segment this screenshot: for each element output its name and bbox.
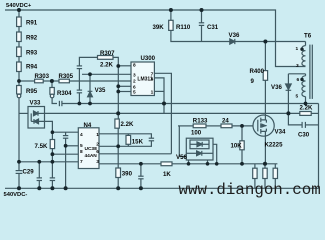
svg-text:4: 4 xyxy=(80,132,83,138)
wire N4 pin5 line xyxy=(66,145,79,147)
capacitor comp at x151 xyxy=(150,134,152,138)
wire snubber vertical xyxy=(318,104,320,189)
wire N4 pin6 output line xyxy=(99,153,171,155)
wire 390 to rail xyxy=(117,178,119,189)
wire N4 pin8 line xyxy=(52,153,78,155)
svg-text:R94: R94 xyxy=(26,64,38,71)
svg-text:V34: V34 xyxy=(275,129,286,136)
svg-text:V33: V33 xyxy=(30,100,41,107)
node T6 phase dot winding2 xyxy=(300,78,303,81)
wire top rail 540VDC+ xyxy=(5,10,306,67)
wire snubber right side xyxy=(311,112,318,114)
resistor R94 xyxy=(17,62,22,72)
wire 7.5K column to VCC line xyxy=(51,154,53,178)
capacitor lower on x79 column xyxy=(77,89,82,91)
node VCC line x52 xyxy=(51,160,55,164)
wire N4 pin3 sense line xyxy=(99,163,277,165)
wire R400 to V34 drain xyxy=(264,80,266,115)
wire R110 column xyxy=(170,10,172,20)
diode V56 upper xyxy=(190,143,197,145)
capacitor at x39 xyxy=(38,162,40,178)
node sense line x216 xyxy=(215,162,219,166)
wire U300 pin8 stub xyxy=(118,65,131,67)
svg-text:390: 390 xyxy=(122,171,133,178)
svg-text:V36: V36 xyxy=(271,84,282,91)
wire T6 pin5 drop xyxy=(305,97,307,104)
svg-text:2.2K: 2.2K xyxy=(121,121,134,128)
node top rail at x19 xyxy=(17,8,21,12)
resistor R400 xyxy=(263,71,267,81)
resistor R93 xyxy=(17,47,22,57)
svg-text:3: 3 xyxy=(96,159,99,165)
node V33 pin4 junction xyxy=(51,130,55,134)
node VCC line x39 xyxy=(37,160,41,164)
node 7.5K pin8 xyxy=(51,152,55,156)
wire U300 pin1 out xyxy=(154,90,164,92)
resistor 390 xyxy=(116,168,121,178)
node x118 pin6 xyxy=(116,84,120,88)
svg-text:5: 5 xyxy=(133,90,136,96)
transformer T6 winding 1-3 xyxy=(302,46,306,66)
transformer T6 winding 6-5 xyxy=(302,76,306,97)
svg-text:R303: R303 xyxy=(35,73,50,80)
svg-text:R93: R93 xyxy=(26,50,38,57)
svg-text:R307: R307 xyxy=(100,50,115,57)
resistor 15K xyxy=(126,135,131,144)
svg-text:10K: 10K xyxy=(231,143,243,150)
diode V33 upper xyxy=(34,111,39,116)
resistor R95 xyxy=(17,86,22,95)
capacitor timing xyxy=(63,135,68,137)
svg-text:1K: 1K xyxy=(163,171,171,178)
node line A T6 pin5 xyxy=(304,102,308,106)
wire R304 column xyxy=(51,81,53,88)
svg-text:1: 1 xyxy=(96,132,99,138)
node rail x118 xyxy=(116,186,120,190)
svg-text:5: 5 xyxy=(80,143,83,149)
svg-text:R400: R400 xyxy=(250,68,265,75)
wire x118 column mid xyxy=(117,128,119,168)
node sense line opto left xyxy=(187,162,191,166)
node line A U300 gnd column xyxy=(162,102,166,106)
svg-text:8: 8 xyxy=(80,149,83,155)
wire node line A xyxy=(62,103,319,105)
svg-text:3: 3 xyxy=(296,63,299,69)
wire V36 lower column xyxy=(287,74,289,84)
node timing cap pin5 xyxy=(64,144,68,148)
svg-text:2.2K: 2.2K xyxy=(100,62,113,69)
resistor R110 xyxy=(169,20,173,30)
optocoupler V56 outer box xyxy=(186,138,213,160)
svg-text:V35: V35 xyxy=(95,87,106,94)
resistor R307 xyxy=(98,56,114,60)
wire left resistor chain column xyxy=(18,10,20,86)
svg-text:V56: V56 xyxy=(176,154,187,161)
V33 box xyxy=(28,107,45,129)
wire V33 internal link xyxy=(30,113,32,121)
node R303 left xyxy=(17,79,21,83)
transistor V34 mosfet symbol xyxy=(258,118,267,134)
svg-text:T6: T6 xyxy=(304,33,312,40)
capacitor at x141 xyxy=(140,164,142,176)
chip N4 UC3844AN box xyxy=(78,128,99,169)
wire U300 pin6 stub xyxy=(118,85,131,87)
capacitor upper on x79 column xyxy=(77,65,82,67)
optocoupler V56 inner box xyxy=(190,140,209,149)
svg-text:2: 2 xyxy=(133,78,136,84)
svg-text:5: 5 xyxy=(296,94,299,100)
wire V34 drain into circle xyxy=(264,115,266,120)
svg-text:LM311: LM311 xyxy=(137,77,153,83)
svg-text:N4: N4 xyxy=(84,122,92,129)
resistor R92 xyxy=(17,32,22,42)
diode V35 xyxy=(88,91,93,97)
diode V33 lower xyxy=(34,119,39,124)
svg-text:7: 7 xyxy=(80,159,83,165)
resistor R304 xyxy=(50,88,54,95)
transformer core lines xyxy=(309,45,311,99)
resistor 24 xyxy=(221,124,232,128)
svg-text:6: 6 xyxy=(297,77,300,83)
svg-text:39K: 39K xyxy=(153,24,165,31)
transistor V34 circle xyxy=(253,115,274,136)
wire 24 to V34 gate xyxy=(232,125,253,127)
svg-text:R304: R304 xyxy=(57,90,72,97)
node clamp line at drain column xyxy=(263,40,267,44)
shunt resistor 3 xyxy=(274,164,276,168)
wire R307 right to x118 column xyxy=(113,57,118,119)
wire 7.5K column top xyxy=(51,132,53,139)
svg-text:C30: C30 xyxy=(298,132,310,139)
wire U300 pin3 line xyxy=(82,73,131,75)
node top rail at C31 xyxy=(200,8,204,12)
svg-text:R92: R92 xyxy=(26,35,38,42)
wire opto right side xyxy=(213,144,217,164)
svg-text:100: 100 xyxy=(191,130,202,137)
svg-text:15K: 15K xyxy=(132,139,144,146)
wire N4 pin2 line xyxy=(99,145,152,147)
wire U300 pin5 stub xyxy=(118,91,131,93)
resistor 2.2K vertical on x118 xyxy=(115,119,119,128)
svg-text:R95: R95 xyxy=(26,88,38,95)
wire V33 upper out to line C xyxy=(38,112,45,114)
resistor 2.2K snubber xyxy=(300,112,311,116)
capacitor C30 branch xyxy=(288,113,302,125)
svg-text:540VDC-: 540VDC- xyxy=(4,192,28,198)
svg-text:UC38: UC38 xyxy=(85,146,98,152)
svg-text:540VDC+: 540VDC+ xyxy=(6,3,32,9)
node top rail at R110 xyxy=(169,8,173,12)
node line C x118 xyxy=(116,111,120,115)
terminal under R95 xyxy=(17,94,21,98)
svg-text:www.diangon.com: www.diangon.com xyxy=(179,181,321,199)
wire R307 left column xyxy=(79,57,97,66)
wire R305 to U300 pin2 xyxy=(69,80,131,82)
svg-text:R91: R91 xyxy=(26,20,38,27)
resistor R303 xyxy=(35,79,44,83)
wire V35 column xyxy=(89,74,91,91)
node line A V35 column xyxy=(88,102,92,106)
node 2.2K pin2 xyxy=(116,144,120,148)
diode V56 lower xyxy=(186,152,196,154)
svg-text:3: 3 xyxy=(133,72,136,78)
svg-text:K2225: K2225 xyxy=(265,142,284,149)
resistor R133 xyxy=(193,124,206,128)
svg-text:V36: V36 xyxy=(229,32,240,39)
svg-text:8: 8 xyxy=(133,63,136,69)
svg-text:6: 6 xyxy=(133,84,136,90)
resistor 10K xyxy=(240,141,244,150)
wire R303 feed xyxy=(19,80,35,82)
node VCC line x19 xyxy=(17,160,21,164)
wire R304 down to node line xyxy=(52,98,57,104)
wire N4 pin1 line xyxy=(99,133,152,135)
node x118 pin5 xyxy=(116,90,120,94)
resistor 7.5K xyxy=(50,140,54,149)
node rail x65 xyxy=(64,186,68,190)
svg-text:R305: R305 xyxy=(59,73,74,80)
node line A cap column xyxy=(78,102,82,106)
resistor 1K xyxy=(161,162,172,166)
svg-text:R110: R110 xyxy=(176,24,191,31)
wire opto lower pins to sense line xyxy=(188,160,190,164)
wire V33 lower out xyxy=(39,121,53,132)
wire U300 pin4 out xyxy=(154,78,164,114)
wire R95 to V33 box xyxy=(18,98,20,171)
svg-text:1: 1 xyxy=(151,90,154,96)
shunt resistor 2 xyxy=(264,164,266,168)
wire into V33 box xyxy=(19,112,28,114)
shunt resistor 1 xyxy=(254,164,256,168)
chip U300 LM311 box xyxy=(131,62,154,96)
node gate line 10K xyxy=(240,124,244,128)
wire bottom rail 540VDC- xyxy=(5,187,319,189)
capacitor in line A near R304 xyxy=(58,101,60,106)
wire 10K column xyxy=(241,126,243,141)
node T6 phase dot winding1 xyxy=(300,48,303,51)
diode V36 lower xyxy=(286,84,292,90)
wire T6 pin6 feed xyxy=(288,73,305,75)
wire VCC line to N4 pin7 xyxy=(19,161,78,163)
wire T6 pin1 drop xyxy=(305,42,307,46)
node rail x141 xyxy=(139,186,143,190)
node sense line V34 source xyxy=(263,162,267,166)
node rail x39 xyxy=(37,186,41,190)
wire gate drive line xyxy=(178,125,193,127)
node x118 pin8 xyxy=(116,64,120,68)
resistor R305 xyxy=(59,79,69,83)
wire V34 source down xyxy=(264,131,266,163)
svg-text:C31: C31 xyxy=(207,24,219,31)
capacitor at x52 xyxy=(50,177,55,179)
resistor R400 column xyxy=(264,42,266,71)
node sense line 10K xyxy=(240,162,244,166)
svg-text:1: 1 xyxy=(296,46,299,52)
svg-text:24: 24 xyxy=(222,118,229,125)
wire gate branch drop to opto xyxy=(179,126,186,157)
wire R133 to 24 xyxy=(206,125,221,127)
capacitor C29 xyxy=(16,170,23,172)
svg-text:R133: R133 xyxy=(193,118,208,125)
svg-text:C29: C29 xyxy=(23,169,35,176)
wire R303 to R305 xyxy=(43,80,59,82)
capacitor C31 xyxy=(201,10,203,23)
terminal under R304 xyxy=(50,94,54,98)
svg-text:2.2K: 2.2K xyxy=(300,105,313,112)
wire U300 pin7 out xyxy=(154,73,171,154)
resistor R91 xyxy=(17,17,22,27)
node rail x19 xyxy=(17,186,21,190)
node sense line cap xyxy=(139,162,143,166)
wire ground column x65.6 xyxy=(65,132,67,135)
svg-text:7.5K: 7.5K xyxy=(35,143,48,150)
node rail x52 xyxy=(50,186,54,190)
svg-text:U300: U300 xyxy=(141,55,156,62)
node R303 R305 junction xyxy=(50,79,54,83)
wire N4 pin4 line xyxy=(52,131,78,133)
node sense line opto right xyxy=(206,162,210,166)
diode V36 top xyxy=(230,39,235,44)
node line C drain snubber xyxy=(286,111,290,115)
node U300 pin3 V35 xyxy=(88,72,92,76)
wire 7.5K bottom to pin8 line xyxy=(51,149,53,155)
wire line C main xyxy=(45,112,300,114)
svg-text:44AN: 44AN xyxy=(85,153,98,159)
